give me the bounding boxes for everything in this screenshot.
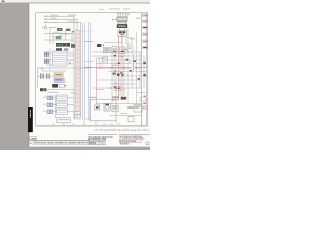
cluster block D1 [56,43,62,47]
frame top tick labels [99,8,130,10]
wire h2 [44,39,74,41]
legend right small box [146,142,149,145]
pump P2 in M3 [104,103,110,111]
label smudge s13 [46,64,53,67]
dashed wire near M1 top [75,30,95,32]
junction dots mesh [111,55,136,83]
relay tag K2 text [58,28,62,31]
wire bottom 2 [110,115,142,117]
box E3 [103,47,110,53]
relay box Y1 (tan) [54,73,63,78]
wire v set left cluster [50,28,72,44]
label smudge near U3 [130,38,135,39]
legend left button mark [32,137,36,140]
legend right row 3 box [119,140,141,142]
bottom-left wide box [57,118,70,123]
tag F4 [143,106,148,109]
wire U3 left [104,36,122,42]
cluster block D3 [66,43,70,47]
label smudge s2 [63,33,70,36]
terminal tag T6 [143,46,148,48]
diode pair D8 [43,88,46,91]
legend right rule [119,133,150,136]
red drop wire RW1 [96,58,98,104]
label smudge s10 [137,91,145,94]
mesh wires right area horizontals [92,52,148,88]
vertical bus B2 lavender [89,22,91,120]
gray drop wires near RW1 [100,58,103,69]
cluster block D4 [71,44,75,48]
red dot E2 [103,45,104,46]
wire label W1 [50,15,58,16]
svg-text:NNNNNNN NNNN: NNNNNNN NNNN [120,141,137,143]
heated seat row 3 module [57,109,68,114]
label smudge s9 [118,89,125,92]
diode pair D7 [40,88,43,91]
heated seat row 2 connectors [47,103,53,107]
legend left rule [29,139,90,142]
wire through C1 C2 [38,75,55,77]
heated seat row 1 module [57,95,68,100]
svg-text:1.: 1. [30,141,33,145]
right bus line 2 [146,13,148,126]
wire bus top A [44,16,81,119]
wires down from relay K1 [120,28,125,30]
frame bottom double line [36,126,148,128]
junction dot red J2 [69,62,71,64]
red tick R1 [65,85,67,86]
toolbar icon mark [2,1,5,2]
long wire bottom [96,103,148,105]
power wire P4 red horizontal 2 [96,68,140,70]
label smudge s3 [84,41,93,42]
terminal tag T2 [143,20,148,22]
junction dot M1 [72,31,74,33]
node arrows left [44,16,47,23]
indicator L1 (green) [56,36,61,39]
component E5 [103,57,108,62]
tag label above M2 b [64,48,68,50]
connector U3 lower box [118,30,126,36]
terminal tag T5 [143,40,148,42]
tag label above M2 [56,48,62,50]
box E4 [112,47,117,54]
box F5 [128,116,134,121]
label smudge s5 [122,48,128,51]
wire h1 [44,28,74,44]
capacitor C1 plates [40,73,43,78]
mesh cluster red marks [115,70,123,76]
svg-text:MA7 06 ha IETD MR7 06 Na ETD G: MA7 06 ha IETD MR7 06 Na ETD Grands W A … [95,129,150,132]
fuse strip end boxes [75,111,80,118]
cluster block D1 text [57,43,61,46]
cluster block D2 [62,43,66,47]
wire label W3 [50,17,57,20]
relay K1 label text [118,26,125,27]
connector J1 pair [44,52,48,56]
label smudge s8 [96,88,104,91]
label text under D7 [48,92,59,93]
scan lightness veil [36,13,147,126]
legend mid rule [88,133,117,136]
cluster bottom right: junction block JB1 [112,96,118,100]
fuse strip cells [75,34,79,106]
wire stub J1-M2 [49,53,74,60]
wires down from M1 to bottom [67,52,116,123]
power wire P1 (red) [119,36,123,100]
label smudge s1 [49,27,57,28]
toolbar strip [0,0,150,3]
relay tag K2 [57,28,62,31]
small box right BR1 [140,97,146,101]
wire stub left of U2 [113,19,118,21]
connector block B2 text [55,79,63,80]
sidebar tab text [30,110,31,118]
red tick RC2 [109,87,111,88]
label above module M3 [88,97,97,98]
svg-text:Tomada n: Tomada n [119,144,130,146]
sidebar tab [28,107,33,132]
schematic border frame [36,13,148,126]
connector J2 pair [44,59,48,63]
module tag D6 [60,84,65,88]
connector S1 [42,25,47,29]
bus bottom link [74,118,91,120]
blue wire V2 [113,56,115,88]
label smudge s6 [129,61,135,64]
blue wire H1 [96,79,142,81]
label smudge s7 [112,64,118,67]
label smudge s11 [120,112,127,115]
heated seat row 1 connectors [47,96,53,100]
box F2 [112,105,118,111]
label smudge s12 [70,91,76,94]
tag E1 [97,44,101,47]
heated seat row 3 connectors [47,110,53,114]
relay cluster RC1 red box [114,86,120,90]
capacitor C2 plates [46,73,49,78]
wire label W4 [68,20,75,23]
module tag D5 [52,84,58,88]
box E6 [120,47,126,57]
connector U2 pins [119,17,125,21]
svg-text:Tomada electrica: Tomada electrica [88,143,106,146]
actuator A1 in M3 [95,105,100,110]
junction dot A [41,67,42,68]
mesh cluster marks [113,72,123,76]
mesh wires right area verticals [112,48,144,104]
blue band BB1 [131,54,135,72]
module M2 box with rows [52,51,67,66]
mid verticals right of U3 [128,28,137,52]
small marks mesh [114,55,146,88]
wire label W2 [68,15,76,16]
terminal tag T1 [143,14,148,16]
viewer background [0,0,150,150]
terminal tag T3 [143,26,148,28]
wire h3 junction row [38,68,93,88]
blue wire V1 [132,54,134,72]
tag JB2 [121,97,127,100]
connector U2 crown pins [117,13,129,17]
motor MT1 twin circles [127,106,133,109]
label smudge s14 [85,60,93,63]
connector U2 housing [117,17,127,21]
row pin labels [43,97,46,112]
terminal tag T4 [143,33,148,35]
relay box Y1 red text [56,74,62,75]
box F3 [134,104,142,112]
relay K1 body [118,21,126,24]
relay K1 label plate [117,25,127,28]
vertical bus B1 [83,23,85,119]
wire v x50 [49,48,51,70]
power wire P3 red horizontal [84,66,148,68]
vertical link wire rows [53,95,74,118]
box E7 empty [126,38,132,45]
page edge shadow [27,3,30,146]
heated seat row 2 module [57,102,68,107]
fuse strip F1 [75,30,79,111]
module M3 big box [90,99,116,121]
legend mid row 2 box [88,138,105,140]
frame bottom tick labels [52,123,120,126]
wire from D7 right [46,89,74,91]
label smudge s4 [97,57,104,60]
document page [29,3,150,146]
label near right bus [136,18,141,19]
connector block B2 (blue) [54,78,64,82]
box E8 [127,46,133,52]
right bus red dots [144,62,146,104]
right bus line [141,13,143,126]
legend left button [30,137,37,140]
legend row 1 cell [33,141,90,144]
relay tag K3 [66,29,71,31]
switch box SW1 [53,33,60,37]
